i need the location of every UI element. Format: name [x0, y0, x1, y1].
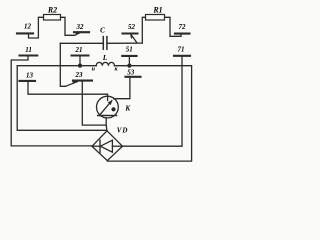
ignitron cathode chord	[98, 115, 117, 117]
svg-text:К: К	[124, 104, 131, 112]
svg-text:VD: VD	[117, 127, 129, 135]
svg-text:к: к	[114, 67, 118, 73]
wire capacitor to R1 lead (y43 line, right part)	[107, 42, 142, 44]
wire main horizontal line left segment	[17, 65, 96, 67]
wire R2 right lead	[61, 17, 75, 35]
wire pin 51 stem	[128, 57, 130, 66]
svg-text:52: 52	[128, 23, 136, 31]
wire cathode lead down to diamond top	[105, 118, 108, 131]
svg-text:71: 71	[178, 46, 185, 54]
svg-text:11: 11	[25, 46, 32, 54]
diode inside VD	[92, 140, 123, 152]
pin 71	[174, 46, 190, 56]
pin 32	[74, 23, 89, 32]
wire pin 71 stem down to diamond right rail	[123, 56, 182, 146]
wire pin 21 stem	[79, 56, 81, 66]
wire pin 13 to lamp anode	[28, 82, 108, 101]
rectifier VD diamond	[92, 127, 128, 161]
ignitron K circle	[97, 96, 119, 118]
pin 13	[20, 72, 36, 81]
wire pin 53 to lamp grid	[114, 77, 130, 98]
wire pin 11 to bottom-left rail	[11, 56, 92, 146]
pin 11	[20, 46, 38, 56]
ignitron igniter arrow	[99, 101, 112, 116]
node dot at 51	[127, 64, 131, 68]
wire main line left leg down to diamond top rail	[17, 66, 107, 131]
wire main horizontal line right segment, down right side to diamond bottom	[107, 66, 191, 161]
svg-text:51: 51	[126, 46, 133, 54]
inductor L	[96, 53, 114, 66]
svg-text:21: 21	[75, 46, 83, 54]
pin 12	[17, 23, 33, 34]
wire node to capacitor (y43 line, left part)	[60, 42, 103, 44]
svg-text:L: L	[102, 53, 108, 62]
svg-text:72: 72	[179, 23, 187, 31]
pin 51	[122, 46, 136, 56]
capacitor C	[100, 27, 107, 50]
wire pin 23 stem down to cathode rail	[82, 81, 106, 125]
wire R2 left lead to pin 12	[29, 17, 44, 38]
contact arm of pin 52	[131, 34, 137, 43]
svg-text:53: 53	[127, 69, 135, 77]
svg-text:C: C	[100, 27, 105, 35]
pin 72	[175, 23, 190, 34]
ignitron gas dot	[111, 107, 115, 111]
wire C-line vertical down	[60, 43, 65, 86]
resistor R1	[146, 5, 165, 20]
wire R1 left lead down	[142, 17, 145, 43]
pin 23	[73, 71, 92, 80]
pin 52	[123, 23, 138, 34]
node dot at 21	[78, 64, 82, 68]
contact arm of pin 32	[75, 33, 80, 36]
svg-text:R1: R1	[152, 5, 162, 14]
svg-text:R2: R2	[47, 5, 57, 14]
pin 53	[126, 69, 141, 77]
svg-text:32: 32	[76, 23, 85, 31]
resistor R2	[44, 5, 61, 20]
svg-text:23: 23	[75, 71, 84, 79]
svg-text:н: н	[92, 66, 96, 72]
svg-text:13: 13	[26, 72, 34, 80]
wire R1 right lead to pin 72	[165, 17, 181, 36]
svg-text:12: 12	[24, 23, 32, 31]
contact arm of pin 23	[66, 82, 78, 87]
pin 21	[72, 46, 89, 55]
